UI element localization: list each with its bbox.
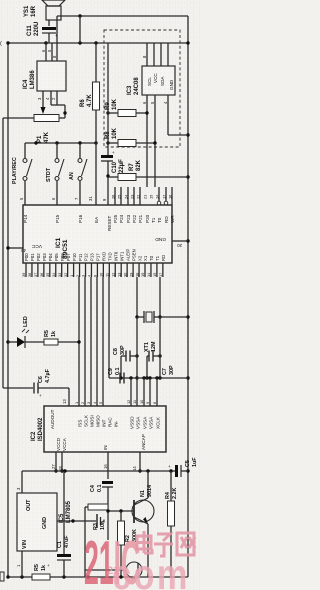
wire: switch common line y=143 (25, 141, 98, 144)
wire: base line y=511 (106, 509, 134, 512)
svg-text:P17: P17 (96, 253, 101, 261)
watermark chinese chars (137, 531, 195, 556)
svg-text:VCCD: VCCD (56, 437, 61, 451)
svg-text:VSSA: VSSA (148, 416, 153, 429)
watermark com (107, 551, 190, 590)
svg-text:47K: 47K (44, 131, 50, 143)
svg-text:21: 21 (107, 565, 119, 577)
svg-text:C9: C9 (108, 368, 114, 375)
svg-text:P13: P13 (90, 253, 95, 261)
svg-text:19: 19 (140, 273, 145, 277)
svg-text:35: 35 (45, 273, 50, 277)
svg-text:RD: RD (164, 216, 169, 223)
svg-text:VCC: VCC (153, 73, 158, 83)
svg-text:P23: P23 (126, 214, 131, 223)
capacitor C11 220U (27, 22, 58, 43)
svg-text:T0: T0 (157, 217, 162, 223)
svg-text:P15: P15 (55, 214, 60, 223)
svg-text:21: 21 (143, 195, 148, 199)
svg-text:R4: R4 (165, 492, 171, 499)
capacitor C10 22uF (101, 150, 125, 205)
svg-text:30P: 30P (120, 345, 126, 355)
capacitor C7 30P (145, 351, 175, 380)
svg-text:0.1: 0.1 (97, 485, 103, 493)
svg-text:P06: P06 (60, 253, 65, 261)
svg-text:P1: P1 (37, 135, 43, 143)
capacitor C1 47uF (47, 471, 71, 577)
svg-text:LM7805: LM7805 (66, 500, 72, 523)
svg-text:EA: EA (94, 216, 99, 223)
wire: left VCC bus vertical x=8 (7, 43, 9, 577)
crystal XT1 12M (135, 277, 161, 352)
wire: reset feed x=108 (107, 43, 109, 155)
svg-text:8: 8 (152, 402, 157, 404)
wire: gnd bus y=378 (109, 376, 188, 379)
wire: MCU pins P14 P15 P16 EA (19, 196, 99, 223)
wire: IC3 SCL SDA lines (142, 95, 155, 187)
wire: IC3 top pin risers (142, 43, 168, 66)
svg-text:P12: P12 (84, 253, 89, 261)
wire: link x=80 (79, 16, 81, 43)
svg-text:LM386: LM386 (30, 70, 36, 89)
svg-text:com: com (112, 551, 190, 590)
svg-text:SCLK: SCLK (83, 414, 88, 427)
svg-text:C7: C7 (162, 368, 168, 375)
wire: IC4 pin risers (41, 20, 57, 61)
svg-text:47uF: 47uF (64, 535, 70, 548)
node: edge mark left top (0, 41, 2, 47)
svg-text:4.7K: 4.7K (87, 94, 93, 107)
svg-text:GND: GND (155, 236, 166, 242)
svg-text:P20: P20 (145, 214, 150, 223)
wire: VSS stubs ISD4002 (126, 378, 157, 406)
resistor R5 1k input (32, 564, 50, 580)
capacitor C4 0.1 (90, 481, 113, 511)
svg-text:40: 40 (21, 248, 26, 253)
svg-text:+: + (39, 393, 42, 398)
wire: crystal to gnd bus line (160, 316, 188, 318)
ground symbol (57, 514, 104, 528)
svg-text:VCCA: VCCA (62, 437, 67, 451)
svg-text:INT0: INT0 (113, 251, 118, 261)
wire: audio return line x=3 (2, 118, 4, 388)
svg-text:15: 15 (152, 273, 157, 277)
svg-text:OUT: OUT (26, 499, 32, 511)
wire: right GND bus vertical x=188 (186, 16, 189, 577)
wire: ISD4002 pin16 IN (103, 452, 108, 479)
svg-text:PLAY/REC: PLAY/REC (12, 157, 18, 184)
svg-text:20: 20 (177, 243, 182, 248)
svg-text:10K: 10K (112, 98, 118, 110)
resistor R4 2.2K (165, 471, 178, 577)
potentiometer P1 47K (3, 115, 59, 144)
node: edge notch left bottom (0, 572, 4, 581)
svg-text:38: 38 (27, 273, 32, 277)
svg-text:27: 27 (51, 464, 56, 469)
svg-text:R6: R6 (80, 99, 86, 107)
LED indicator (6, 316, 29, 348)
resistor R9 10K (105, 98, 149, 116)
switch S2 STDT (46, 143, 64, 205)
svg-text:VSSD: VSSD (129, 416, 134, 429)
svg-text:P04: P04 (48, 253, 53, 261)
wire: 7805 VIN pin 1 (16, 551, 22, 577)
wire: crystal legs to gnd bus (135, 317, 161, 380)
svg-text:RD: RD (161, 255, 166, 261)
svg-text:36: 36 (39, 273, 44, 277)
svg-text:14: 14 (132, 466, 137, 471)
svg-text:GND: GND (169, 79, 174, 90)
svg-text:T0: T0 (149, 255, 154, 261)
svg-text:P00: P00 (24, 253, 29, 261)
svg-text:P25: P25 (113, 214, 118, 223)
svg-text:RESET: RESET (107, 215, 112, 231)
wire: GND pin 20 (155, 236, 188, 248)
svg-text:29: 29 (128, 273, 133, 277)
svg-text:RAC: RAC (107, 417, 112, 427)
svg-text:/SS: /SS (77, 420, 82, 427)
svg-text:30P: 30P (169, 365, 175, 375)
wire: ISD4002 pin14 ANCAP (132, 452, 142, 473)
svg-text:9: 9 (145, 402, 150, 404)
svg-text:39: 39 (21, 273, 26, 277)
resistor R2 300K (118, 511, 139, 579)
resistor R6 4.7K (80, 43, 100, 205)
svg-text:STDT: STDT (46, 167, 52, 182)
svg-text:1: 1 (74, 402, 79, 404)
svg-text:5: 5 (98, 402, 103, 404)
svg-text:IN-: IN- (113, 420, 118, 427)
svg-text:18: 18 (58, 466, 63, 471)
dashed option box (104, 30, 180, 147)
svg-text:15: 15 (149, 195, 154, 199)
svg-text:12M: 12M (151, 341, 157, 352)
svg-text:INT: INT (101, 419, 106, 427)
svg-text:R7: R7 (129, 163, 135, 171)
capacitor C8 30P (113, 345, 139, 378)
wire: 7805 OUT pin 3 (16, 471, 22, 493)
svg-text:11: 11 (105, 273, 110, 277)
svg-text:16R: 16R (31, 5, 37, 17)
svg-text:4.7µF: 4.7µF (45, 368, 51, 383)
svg-text:+: + (112, 150, 115, 155)
svg-text:GND: GND (42, 517, 48, 529)
wire: bottom line y=577 (6, 575, 188, 578)
svg-text:16: 16 (168, 195, 173, 199)
svg-text:N1: N1 (140, 490, 146, 497)
svg-text:IC3: IC3 (127, 85, 133, 95)
svg-text:IN: IN (103, 445, 108, 450)
svg-text:IC4: IC4 (23, 79, 29, 89)
svg-text:VSSA: VSSA (135, 416, 140, 429)
svg-text:IC1: IC1 (55, 237, 62, 248)
wire: MCU top pin cluster (102, 187, 175, 231)
svg-text:T1: T1 (155, 255, 160, 261)
svg-text:+: + (47, 563, 50, 568)
svg-text:R5: R5 (34, 564, 40, 571)
IC2 ISD4002 voice chip (31, 406, 166, 452)
svg-text:P01: P01 (30, 253, 35, 261)
svg-text:12: 12 (110, 273, 115, 277)
svg-text:P24: P24 (119, 214, 124, 223)
svg-text:18: 18 (134, 273, 139, 277)
svg-text:VSSA: VSSA (142, 416, 147, 429)
switch S3 AN (69, 143, 87, 205)
amplifier IC4 LM386 (23, 61, 66, 91)
svg-text:C10: C10 (112, 161, 118, 173)
svg-text:31: 31 (88, 196, 93, 201)
svg-text:C8: C8 (113, 348, 119, 355)
capacitor C6 4.7uF (3, 368, 69, 406)
capacitor C9 0.1 (108, 368, 124, 384)
svg-text:RXD: RXD (102, 252, 107, 261)
wire: top feed line y=43 (6, 41, 188, 44)
capacitor C5 1uF (168, 457, 198, 477)
svg-text:P21: P21 (138, 214, 143, 223)
svg-text:2: 2 (75, 275, 80, 277)
resistor R8 10K (105, 127, 157, 146)
svg-text:32: 32 (63, 273, 68, 277)
transistor N1 9014 (132, 471, 154, 577)
svg-text:23: 23 (130, 195, 135, 199)
svg-text:AUDOUT: AUDOUT (50, 409, 55, 429)
resistor R3 10K (85, 504, 108, 577)
svg-text:1uF: 1uF (192, 457, 198, 467)
svg-text:PSEN: PSEN (131, 249, 136, 261)
svg-text:16: 16 (103, 464, 108, 469)
svg-text:2: 2 (80, 402, 85, 404)
watermark 21IC (84, 529, 140, 590)
wire: VCC pin 40 (6, 243, 42, 253)
wire: MCU bottom pins (21, 249, 166, 277)
svg-text:ISD4002: ISD4002 (38, 417, 44, 441)
speaker YS1 16R (24, 0, 65, 26)
resistor R7 82K (106, 159, 188, 180)
svg-text:ALE/P: ALE/P (125, 249, 130, 261)
svg-text:T1: T1 (151, 217, 156, 223)
svg-text:13: 13 (62, 399, 67, 404)
svg-text:P10: P10 (72, 253, 77, 261)
svg-text:22µF: 22µF (119, 159, 125, 173)
svg-text:33: 33 (57, 273, 62, 277)
svg-text:XCLK: XCLK (155, 416, 160, 429)
svg-text:IC2: IC2 (31, 431, 37, 441)
svg-text:3: 3 (81, 275, 86, 277)
svg-text:SCL: SCL (147, 77, 152, 86)
wire: SPI lines to ISD4002 (74, 277, 109, 406)
svg-text:C5: C5 (185, 460, 191, 467)
svg-text:X1: X1 (143, 255, 148, 261)
svg-text:MOSI: MOSI (89, 415, 94, 427)
svg-text:1: 1 (69, 275, 74, 277)
svg-text:C11: C11 (27, 25, 33, 36)
svg-text:0.1: 0.1 (115, 368, 121, 376)
svg-text:3: 3 (86, 402, 91, 404)
svg-text:10K: 10K (112, 127, 118, 139)
wire: +5V line y=471 (22, 469, 175, 472)
svg-text:+: + (168, 464, 171, 469)
svg-text:9014: 9014 (147, 485, 153, 497)
svg-text:TXD: TXD (108, 252, 113, 261)
svg-text:LED: LED (23, 316, 29, 327)
svg-text:220U: 220U (34, 22, 40, 36)
svg-text:VCC: VCC (31, 243, 42, 249)
IC3 24C08 eeprom (127, 66, 175, 95)
svg-text:24C08: 24C08 (134, 77, 140, 95)
svg-text:AN: AN (69, 172, 75, 180)
svg-text:P16: P16 (78, 214, 83, 223)
wire: IC3 pin4 ground link (163, 95, 188, 135)
svg-text:82K: 82K (136, 159, 142, 171)
svg-text:P22: P22 (132, 214, 137, 223)
svg-text:P11: P11 (78, 253, 83, 261)
svg-text:SDA: SDA (160, 76, 165, 86)
svg-text:VIN: VIN (22, 540, 28, 549)
svg-text:17: 17 (162, 195, 167, 199)
svg-text:P07: P07 (66, 253, 71, 261)
svg-text:X2: X2 (137, 255, 142, 261)
svg-text:INT1: INT1 (119, 251, 124, 261)
svg-text:13: 13 (116, 273, 121, 277)
svg-text:1k: 1k (51, 331, 57, 337)
wire: speaker ground line y=16 (57, 14, 188, 17)
svg-text:P03: P03 (42, 253, 47, 261)
svg-text:(: ( (0, 41, 2, 47)
svg-text:MISO: MISO (95, 415, 100, 427)
svg-text:P05: P05 (54, 253, 59, 261)
svg-text:25: 25 (117, 195, 122, 199)
svg-text:P14: P14 (23, 214, 28, 223)
svg-text:YS1: YS1 (24, 5, 30, 17)
svg-text:C4: C4 (90, 485, 96, 492)
svg-text:11: 11 (132, 400, 137, 404)
switch S1 PLAY/REC (12, 143, 32, 205)
MCU IC1 89C51 (23, 205, 172, 263)
wire: IC4 bottom pins (37, 91, 67, 118)
svg-text:C1: C1 (57, 541, 63, 548)
microphone MIC (85, 562, 142, 578)
IC5 LM7805 regulator (17, 493, 72, 551)
svg-text:2.2K: 2.2K (172, 488, 178, 499)
svg-text:WR: WR (170, 215, 175, 223)
svg-text:17: 17 (158, 273, 163, 277)
svg-text:1k: 1k (41, 565, 47, 571)
svg-text:22: 22 (136, 195, 141, 199)
svg-text:R5: R5 (44, 330, 50, 337)
svg-text:12: 12 (126, 400, 131, 404)
svg-text:8: 8 (93, 275, 98, 277)
svg-text:C6: C6 (38, 376, 44, 383)
svg-text:37: 37 (33, 273, 38, 277)
svg-text:P02: P02 (36, 253, 41, 261)
svg-text:ANCAP: ANCAP (141, 434, 146, 450)
wire: ISD4002 power pins 27 18 (51, 452, 64, 473)
svg-text:26: 26 (111, 195, 116, 199)
resistor R5 1k to LED (25, 330, 81, 345)
